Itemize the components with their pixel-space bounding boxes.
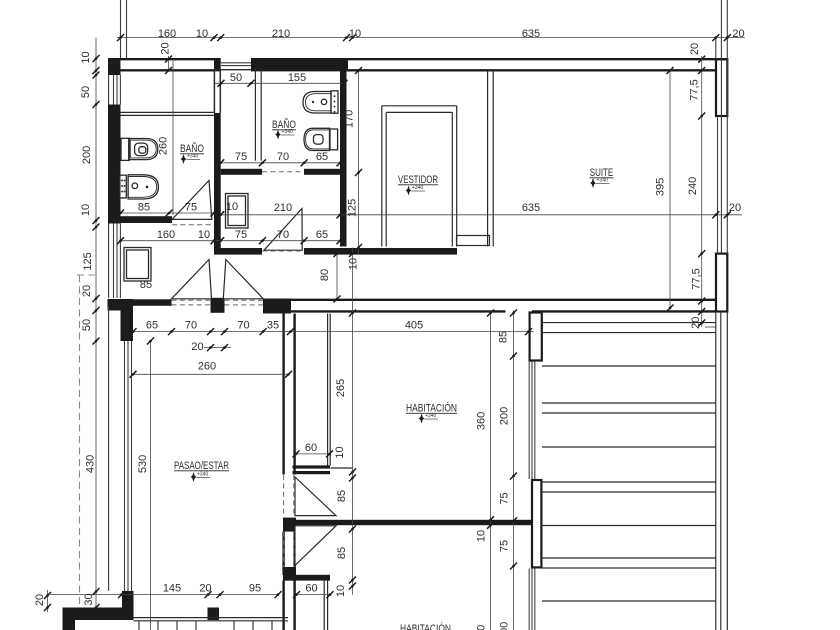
- svg-text:60: 60: [305, 442, 317, 454]
- svg-text:635: 635: [522, 202, 540, 214]
- svg-text:85: 85: [336, 490, 348, 502]
- svg-text:20: 20: [199, 583, 211, 595]
- svg-text:200: 200: [499, 622, 511, 630]
- svg-text:65: 65: [316, 229, 328, 241]
- svg-text:70: 70: [237, 320, 249, 332]
- svg-text:160: 160: [158, 28, 176, 40]
- svg-text:30: 30: [83, 593, 95, 605]
- svg-text:10: 10: [80, 51, 92, 63]
- svg-text:125: 125: [82, 252, 94, 270]
- svg-text:20: 20: [689, 43, 701, 55]
- svg-text:75: 75: [185, 202, 197, 214]
- svg-text:145: 145: [163, 583, 181, 595]
- svg-text:65: 65: [146, 320, 158, 332]
- svg-text:35: 35: [267, 320, 279, 332]
- svg-text:85: 85: [140, 279, 152, 291]
- svg-text:155: 155: [288, 72, 306, 84]
- svg-text:405: 405: [405, 320, 423, 332]
- svg-text:360: 360: [476, 625, 488, 630]
- svg-text:95: 95: [249, 583, 261, 595]
- svg-text:VESTIDOR: VESTIDOR: [398, 174, 438, 186]
- svg-text:PASAO/ESTAR: PASAO/ESTAR: [174, 460, 229, 472]
- svg-text:75: 75: [235, 229, 247, 241]
- svg-text:20: 20: [34, 594, 46, 606]
- svg-text:125: 125: [347, 199, 359, 217]
- svg-text:170: 170: [344, 110, 356, 128]
- svg-text:260: 260: [158, 137, 170, 155]
- svg-text:+340: +340: [425, 413, 436, 419]
- svg-text:+340: +340: [187, 154, 198, 160]
- svg-text:70: 70: [277, 229, 289, 241]
- svg-text:265: 265: [335, 379, 347, 397]
- svg-text:+340: +340: [197, 472, 208, 478]
- svg-text:10: 10: [349, 28, 361, 40]
- svg-text:50: 50: [80, 86, 92, 98]
- svg-text:10: 10: [334, 446, 346, 458]
- svg-text:20: 20: [160, 42, 172, 54]
- svg-text:85: 85: [336, 547, 348, 559]
- svg-text:75: 75: [499, 540, 511, 552]
- svg-text:160: 160: [157, 229, 175, 241]
- svg-text:70: 70: [185, 320, 197, 332]
- svg-text:85: 85: [498, 331, 510, 343]
- svg-text:10: 10: [226, 201, 238, 213]
- svg-text:+340: +340: [597, 178, 608, 184]
- svg-text:240: 240: [687, 177, 699, 195]
- svg-text:65: 65: [316, 151, 328, 163]
- svg-text:10: 10: [348, 258, 360, 270]
- svg-text:20: 20: [191, 341, 203, 353]
- svg-text:210: 210: [274, 202, 292, 214]
- svg-text:20: 20: [690, 317, 702, 329]
- svg-text:360: 360: [476, 412, 488, 430]
- svg-text:+340: +340: [282, 129, 293, 135]
- svg-text:260: 260: [198, 361, 216, 373]
- svg-text:85: 85: [138, 202, 150, 214]
- svg-text:530: 530: [137, 455, 149, 473]
- svg-text:200: 200: [499, 407, 511, 425]
- svg-text:HABITACIÓN: HABITACIÓN: [400, 622, 451, 630]
- svg-text:635: 635: [522, 28, 540, 40]
- svg-text:10: 10: [335, 585, 347, 597]
- svg-text:20: 20: [81, 285, 93, 297]
- svg-text:10: 10: [198, 229, 210, 241]
- svg-text:50: 50: [81, 319, 93, 331]
- svg-text:20: 20: [729, 202, 741, 214]
- svg-text:60: 60: [305, 583, 317, 595]
- svg-text:10: 10: [196, 28, 208, 40]
- svg-text:10: 10: [80, 204, 92, 216]
- svg-text:430: 430: [85, 455, 97, 473]
- svg-text:395: 395: [655, 178, 667, 196]
- svg-text:50: 50: [230, 72, 242, 84]
- svg-text:75: 75: [499, 492, 511, 504]
- svg-text:10: 10: [476, 530, 488, 542]
- svg-text:77,5: 77,5: [691, 268, 703, 289]
- svg-text:75: 75: [235, 151, 247, 163]
- svg-text:77,5: 77,5: [689, 79, 701, 100]
- svg-text:+340: +340: [412, 185, 423, 191]
- svg-text:210: 210: [272, 28, 290, 40]
- svg-text:20: 20: [732, 28, 744, 40]
- svg-text:80: 80: [319, 269, 331, 281]
- svg-text:70: 70: [277, 151, 289, 163]
- svg-text:200: 200: [81, 146, 93, 164]
